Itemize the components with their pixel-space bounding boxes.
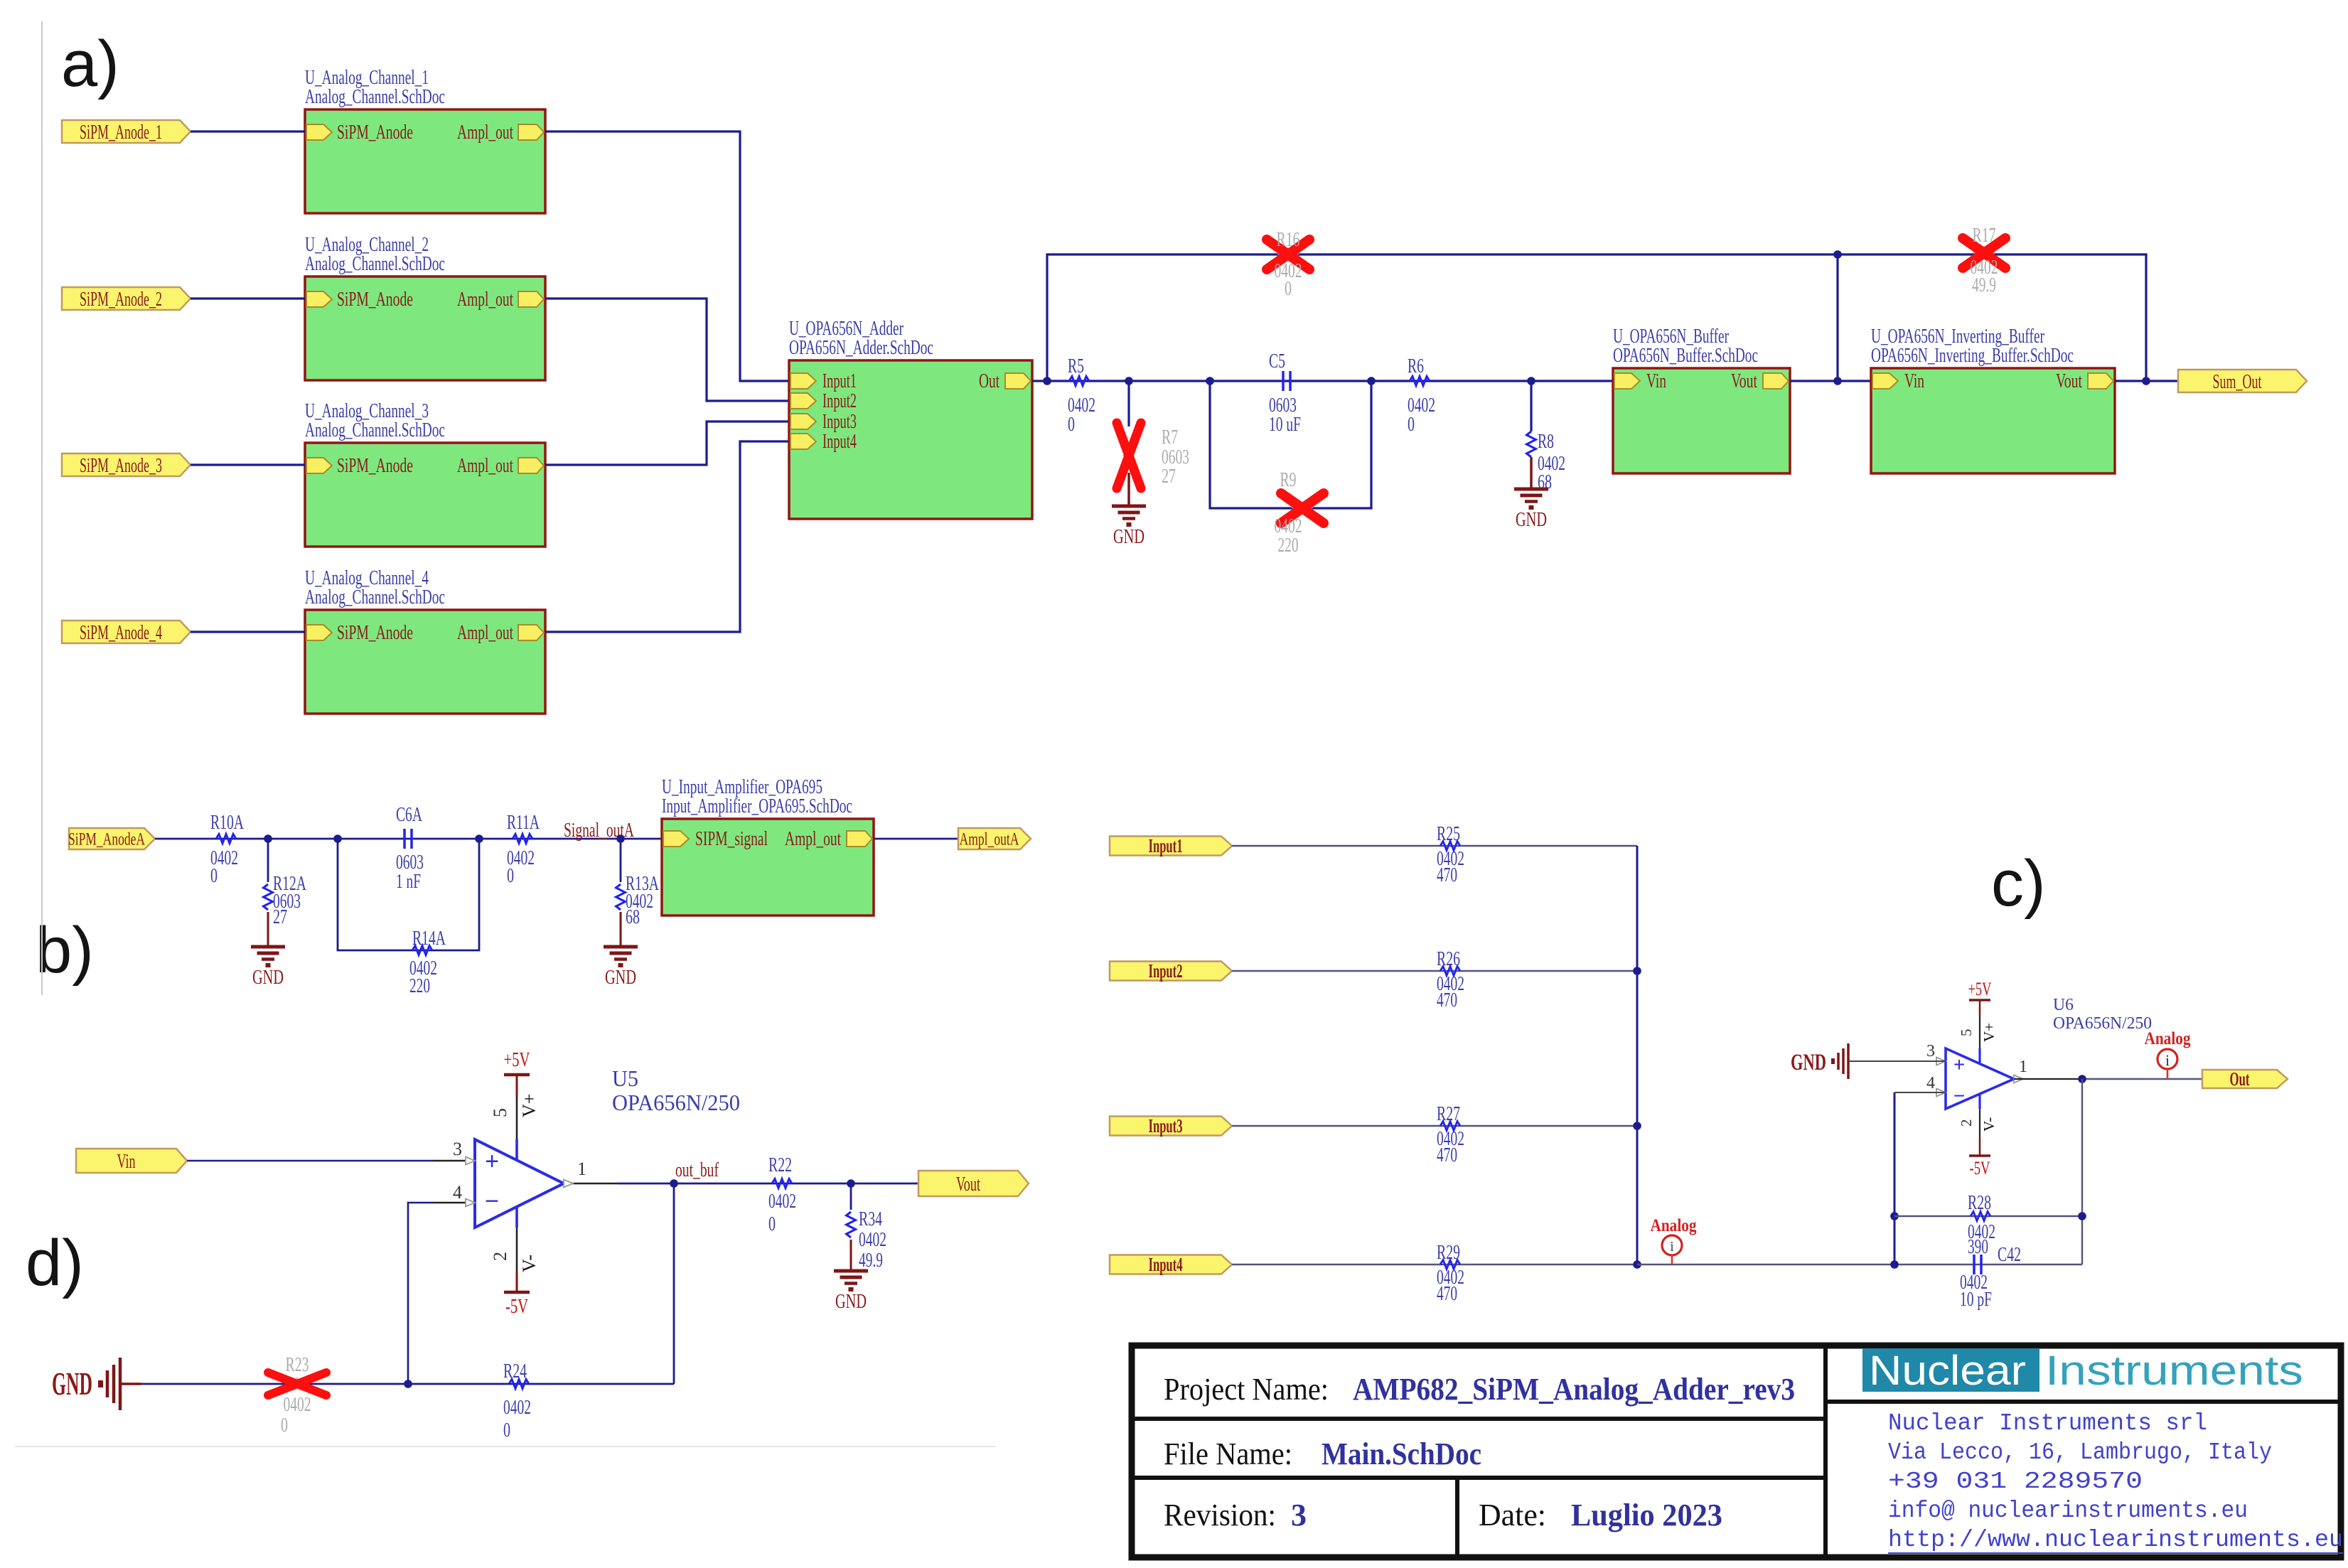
svg-text:Analog: Analog bbox=[2145, 1029, 2191, 1048]
svg-text:0: 0 bbox=[281, 1414, 288, 1437]
svg-text:i: i bbox=[1670, 1239, 1674, 1255]
svg-text:GND: GND bbox=[52, 1365, 92, 1402]
svg-text:Ampl_out: Ampl_out bbox=[457, 455, 513, 477]
svg-text:Input4: Input4 bbox=[1149, 1254, 1183, 1275]
svg-text:SiPM_Anode_4: SiPM_Anode_4 bbox=[80, 621, 162, 644]
svg-text:Analog_Channel.SchDoc: Analog_Channel.SchDoc bbox=[305, 419, 445, 441]
svg-text:R25: R25 bbox=[1437, 823, 1460, 845]
svg-text:R8: R8 bbox=[1538, 431, 1554, 453]
svg-text:b): b) bbox=[36, 914, 94, 987]
svg-text:OPA656N/250: OPA656N/250 bbox=[2053, 1014, 2152, 1033]
svg-text:R9: R9 bbox=[1280, 469, 1297, 491]
svg-text:GND: GND bbox=[1113, 526, 1144, 548]
svg-text:Input1: Input1 bbox=[822, 370, 857, 392]
svg-text:R6: R6 bbox=[1408, 355, 1424, 377]
svg-text:R28: R28 bbox=[1968, 1192, 1991, 1214]
svg-text:0: 0 bbox=[1285, 278, 1292, 300]
svg-text:R29: R29 bbox=[1437, 1242, 1460, 1264]
svg-text:Vin: Vin bbox=[1904, 370, 1924, 392]
svg-text:Input2: Input2 bbox=[822, 390, 857, 412]
svg-text:+5V: +5V bbox=[504, 1048, 530, 1071]
svg-text:R23: R23 bbox=[286, 1354, 309, 1376]
svg-text:Input2: Input2 bbox=[1149, 960, 1183, 982]
svg-text:R10A: R10A bbox=[210, 812, 245, 834]
svg-text:Input3: Input3 bbox=[1149, 1115, 1183, 1137]
svg-text:GND: GND bbox=[252, 967, 284, 989]
svg-text:R5: R5 bbox=[1068, 355, 1084, 377]
svg-text:Revision:: Revision: bbox=[1164, 1498, 1276, 1532]
svg-text:Main.SchDoc: Main.SchDoc bbox=[1322, 1437, 1481, 1471]
svg-text:R22: R22 bbox=[768, 1154, 792, 1176]
svg-text:Analog_Channel.SchDoc: Analog_Channel.SchDoc bbox=[305, 586, 445, 608]
svg-text:R14A: R14A bbox=[412, 928, 446, 950]
svg-text:Out: Out bbox=[979, 370, 999, 392]
svg-text:a): a) bbox=[61, 28, 119, 100]
svg-text:470: 470 bbox=[1437, 989, 1457, 1011]
svg-text:c): c) bbox=[1991, 847, 2046, 920]
svg-text:C5: C5 bbox=[1269, 350, 1285, 372]
svg-text:49.9: 49.9 bbox=[1972, 274, 1996, 296]
svg-text:3: 3 bbox=[1291, 1498, 1307, 1532]
svg-text:0402: 0402 bbox=[284, 1394, 311, 1416]
svg-text:R24: R24 bbox=[503, 1360, 527, 1382]
svg-text:0402: 0402 bbox=[503, 1397, 531, 1419]
svg-text:GND: GND bbox=[835, 1291, 867, 1313]
svg-text:SiPM_Anode_1: SiPM_Anode_1 bbox=[80, 121, 162, 144]
svg-text:1: 1 bbox=[2019, 1058, 2027, 1076]
svg-text:V+: V+ bbox=[1980, 1023, 1998, 1042]
svg-text:Input_Amplifier_OPA695.SchDoc: Input_Amplifier_OPA695.SchDoc bbox=[662, 795, 852, 817]
svg-text:Ampl_out: Ampl_out bbox=[457, 622, 513, 644]
svg-text:470: 470 bbox=[1437, 864, 1457, 886]
svg-text:Vin: Vin bbox=[117, 1150, 136, 1173]
svg-text:27: 27 bbox=[1162, 466, 1176, 488]
svg-text:Ampl_out: Ampl_out bbox=[785, 828, 841, 850]
svg-text:d): d) bbox=[26, 1227, 84, 1299]
svg-text:SiPM_Anode: SiPM_Anode bbox=[337, 122, 413, 144]
svg-text:1 nF: 1 nF bbox=[396, 871, 421, 893]
svg-text:Vin: Vin bbox=[1646, 370, 1666, 392]
svg-text:0: 0 bbox=[210, 865, 218, 887]
svg-text:4: 4 bbox=[1926, 1074, 1935, 1092]
svg-text:GND: GND bbox=[1791, 1050, 1826, 1075]
svg-text:SiPM_Anode_3: SiPM_Anode_3 bbox=[80, 454, 162, 477]
svg-text:R16: R16 bbox=[1277, 229, 1300, 251]
svg-text:Sum_Out: Sum_Out bbox=[2213, 370, 2262, 393]
svg-text:2: 2 bbox=[490, 1252, 510, 1261]
svg-text:R11A: R11A bbox=[507, 812, 540, 834]
svg-text:+5V: +5V bbox=[1968, 979, 1992, 999]
svg-text:2: 2 bbox=[1958, 1119, 1975, 1127]
svg-text:Vout: Vout bbox=[1731, 370, 1757, 392]
svg-text:Analog: Analog bbox=[1651, 1216, 1697, 1235]
svg-text:Input1: Input1 bbox=[1149, 835, 1183, 857]
svg-text:−: − bbox=[1953, 1085, 1965, 1107]
svg-text:Date:: Date: bbox=[1479, 1498, 1546, 1532]
svg-text:SiPM_Anode: SiPM_Anode bbox=[337, 455, 413, 477]
svg-text:-5V: -5V bbox=[1970, 1158, 1990, 1178]
svg-text:i: i bbox=[2165, 1051, 2170, 1069]
svg-text:+39 031 2289570: +39 031 2289570 bbox=[1888, 1468, 2143, 1495]
svg-text:R7: R7 bbox=[1162, 426, 1178, 449]
svg-text:+: + bbox=[485, 1148, 499, 1175]
svg-text:SiPM_Anode_2: SiPM_Anode_2 bbox=[80, 288, 162, 311]
svg-text:OPA656N_Inverting_Buffer.SchDo: OPA656N_Inverting_Buffer.SchDoc bbox=[1871, 345, 2074, 367]
svg-text:Analog_Channel.SchDoc: Analog_Channel.SchDoc bbox=[305, 253, 445, 275]
svg-text:http://www.nuclearinstruments.: http://www.nuclearinstruments.eu bbox=[1888, 1527, 2343, 1553]
svg-text:Ampl_out: Ampl_out bbox=[457, 289, 513, 311]
svg-text:5: 5 bbox=[490, 1108, 510, 1117]
svg-text:0402: 0402 bbox=[859, 1229, 886, 1251]
svg-text:-5V: -5V bbox=[505, 1295, 528, 1318]
svg-text:Project Name:: Project Name: bbox=[1164, 1372, 1329, 1407]
svg-text:4: 4 bbox=[453, 1182, 462, 1203]
svg-text:SiPM_Anode: SiPM_Anode bbox=[337, 622, 413, 644]
svg-text:470: 470 bbox=[1437, 1144, 1457, 1166]
svg-text:out_buf: out_buf bbox=[675, 1159, 719, 1181]
svg-text:3: 3 bbox=[453, 1139, 462, 1159]
svg-text:C6A: C6A bbox=[396, 804, 423, 826]
svg-text:info@ nuclearinstruments.eu: info@ nuclearinstruments.eu bbox=[1888, 1498, 2248, 1524]
svg-text:V-: V- bbox=[519, 1255, 540, 1272]
svg-text:5: 5 bbox=[1958, 1029, 1975, 1037]
svg-text:Input3: Input3 bbox=[822, 411, 857, 433]
svg-text:390: 390 bbox=[1968, 1236, 1988, 1258]
svg-text:Analog_Channel.SchDoc: Analog_Channel.SchDoc bbox=[305, 86, 445, 108]
svg-text:OPA656N/250: OPA656N/250 bbox=[612, 1090, 740, 1115]
svg-text:Luglio 2023: Luglio 2023 bbox=[1571, 1498, 1722, 1532]
svg-text:10 uF: 10 uF bbox=[1269, 414, 1301, 436]
svg-text:U6: U6 bbox=[2053, 996, 2074, 1014]
svg-text:Instruments: Instruments bbox=[2045, 1348, 2303, 1394]
svg-text:Input4: Input4 bbox=[822, 431, 857, 453]
svg-text:Vout: Vout bbox=[956, 1173, 980, 1196]
svg-text:+: + bbox=[1953, 1053, 1965, 1075]
svg-text:0: 0 bbox=[1408, 414, 1415, 436]
svg-text:27: 27 bbox=[273, 906, 287, 928]
svg-text:R26: R26 bbox=[1437, 948, 1460, 970]
svg-text:0402: 0402 bbox=[768, 1191, 796, 1213]
svg-text:Vout: Vout bbox=[2056, 370, 2082, 392]
svg-text:U5: U5 bbox=[612, 1065, 638, 1091]
svg-text:0: 0 bbox=[503, 1419, 510, 1441]
svg-text:1: 1 bbox=[577, 1159, 586, 1179]
svg-text:Ampl_outA: Ampl_outA bbox=[960, 830, 1019, 849]
svg-text:220: 220 bbox=[1278, 535, 1299, 557]
svg-text:470: 470 bbox=[1437, 1283, 1457, 1305]
svg-text:Ampl_out: Ampl_out bbox=[457, 122, 513, 144]
svg-text:3: 3 bbox=[1926, 1042, 1935, 1060]
svg-text:−: − bbox=[485, 1188, 499, 1215]
svg-text:GND: GND bbox=[605, 967, 636, 989]
svg-text:Nuclear Instruments srl: Nuclear Instruments srl bbox=[1888, 1410, 2207, 1437]
svg-text:68: 68 bbox=[626, 906, 640, 928]
svg-text:V+: V+ bbox=[519, 1094, 540, 1117]
svg-text:0: 0 bbox=[1068, 414, 1075, 436]
svg-text:GND: GND bbox=[1516, 509, 1547, 531]
svg-text:C42: C42 bbox=[1998, 1244, 2021, 1266]
svg-text:OPA656N_Adder.SchDoc: OPA656N_Adder.SchDoc bbox=[789, 337, 933, 359]
svg-text:49.9: 49.9 bbox=[859, 1250, 883, 1272]
svg-text:OPA656N_Buffer.SchDoc: OPA656N_Buffer.SchDoc bbox=[1613, 345, 1758, 367]
svg-text:220: 220 bbox=[409, 975, 430, 997]
svg-text:0: 0 bbox=[507, 865, 514, 887]
svg-text:V-: V- bbox=[1980, 1117, 1998, 1132]
svg-text:0: 0 bbox=[768, 1213, 776, 1235]
svg-text:10 pF: 10 pF bbox=[1960, 1289, 1992, 1311]
svg-text:R34: R34 bbox=[859, 1208, 882, 1230]
svg-text:Out: Out bbox=[2230, 1068, 2250, 1090]
svg-text:SiPM_AnodeA: SiPM_AnodeA bbox=[68, 830, 145, 849]
svg-text:Nuclear: Nuclear bbox=[1869, 1348, 2026, 1394]
svg-text:File Name:: File Name: bbox=[1164, 1437, 1292, 1471]
svg-text:SiPM_Anode: SiPM_Anode bbox=[337, 289, 413, 311]
svg-text:R17: R17 bbox=[1973, 225, 1996, 247]
svg-text:SIPM_signal: SIPM_signal bbox=[695, 828, 768, 850]
svg-text:AMP682_SiPM_Analog_Adder_rev3: AMP682_SiPM_Analog_Adder_rev3 bbox=[1353, 1372, 1795, 1407]
svg-text:R27: R27 bbox=[1437, 1103, 1460, 1125]
svg-text:Via Lecco, 16, Lambrugo, Italy: Via Lecco, 16, Lambrugo, Italy bbox=[1888, 1439, 2272, 1466]
